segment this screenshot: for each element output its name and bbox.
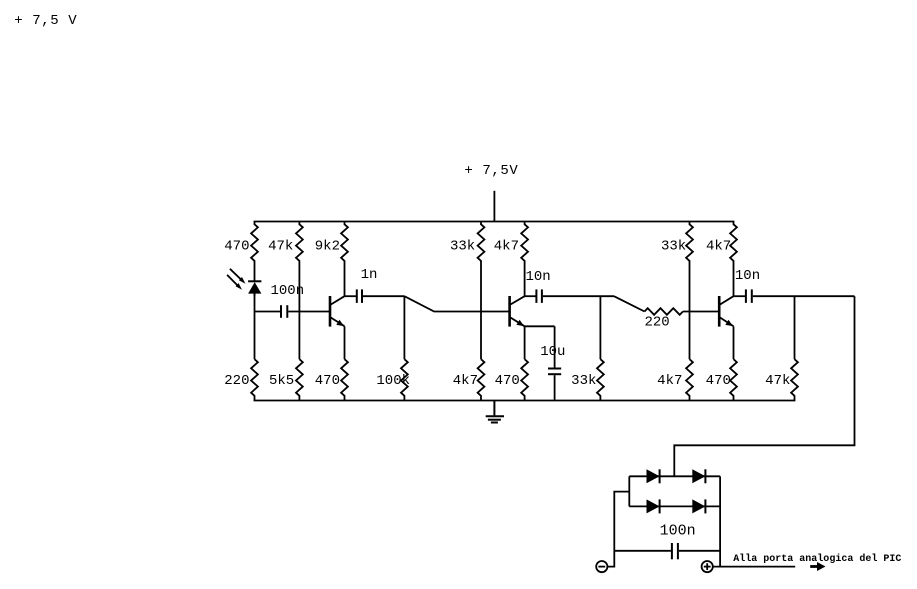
svg-text:4k7: 4k7 xyxy=(494,239,519,255)
wire bridge left jog xyxy=(607,492,629,567)
resistor 47k xyxy=(268,222,303,262)
capacitor 100n (input coupling) xyxy=(271,283,305,318)
wire C1 to Q1 base xyxy=(288,311,330,313)
wire Q1 emitter to R470 xyxy=(344,326,346,359)
resistor 9k2 xyxy=(315,222,348,297)
wire diode row top xyxy=(629,475,720,477)
svg-text:33k: 33k xyxy=(571,373,596,389)
wire Q3 collector node xyxy=(734,295,746,297)
svg-text:470: 470 xyxy=(706,373,731,389)
svg-text:1n: 1n xyxy=(361,267,378,283)
wire 100k column xyxy=(403,296,405,359)
capacitor 10u (emitter bypass) xyxy=(540,326,565,400)
resistor 100k xyxy=(376,359,410,400)
diode D2 (top left) xyxy=(647,469,660,483)
wire 33k column xyxy=(599,296,601,359)
svg-text:9k2: 9k2 xyxy=(315,239,340,255)
svg-text:470: 470 xyxy=(495,373,520,389)
svg-text:10n: 10n xyxy=(526,269,551,285)
svg-text:220: 220 xyxy=(645,314,670,330)
resistor 470 (Q1 emitter) xyxy=(315,359,348,400)
output arrow xyxy=(810,562,825,571)
wire C4 to corner xyxy=(753,295,855,297)
svg-text:33k: 33k xyxy=(450,239,475,255)
photodiode D1 xyxy=(248,281,261,296)
resistor 4k7 (Q3 base lower) xyxy=(657,359,693,400)
resistor 33k (bottom) xyxy=(571,359,604,400)
svg-text:470: 470 xyxy=(224,239,249,255)
wire Q3 emitter to R470 xyxy=(733,326,735,359)
svg-text:100n: 100n xyxy=(660,523,696,540)
wire R220 to Q3 base xyxy=(683,311,719,313)
wire Q2 emitter to R470 xyxy=(524,326,526,359)
wire output drop xyxy=(674,296,854,476)
svg-text:470: 470 xyxy=(315,373,340,389)
terminal plus xyxy=(702,561,713,572)
wire divider column Q3 xyxy=(689,261,691,359)
resistor 220 (bottom left) xyxy=(224,359,258,400)
svg-text:5k5: 5k5 xyxy=(269,373,294,389)
wire slope to Q2 base xyxy=(404,296,509,311)
svg-text:4k7: 4k7 xyxy=(706,239,731,255)
wire photodiode to C1 xyxy=(255,311,281,313)
resistor 4k7 (Q2 base lower) xyxy=(453,359,485,400)
resistor 470 (photodiode series) xyxy=(224,222,258,282)
transistor Q1 xyxy=(330,296,345,327)
wire 47k column xyxy=(794,296,796,359)
svg-text:4k7: 4k7 xyxy=(657,373,682,389)
svg-text:47k: 47k xyxy=(268,239,293,255)
resistor 4k7 (Q3 collector) xyxy=(706,222,737,297)
resistor 33k (Q2 base upper) xyxy=(450,222,484,262)
wire power feed xyxy=(493,191,495,222)
wire diode row bottom xyxy=(629,505,720,507)
resistor 33k (Q3 base upper) xyxy=(661,222,693,262)
wire divider column Q2 xyxy=(480,261,482,359)
diode D5 (bottom right) xyxy=(692,499,705,513)
wire C3 to node 33k xyxy=(543,295,614,297)
svg-text:100k: 100k xyxy=(376,373,410,389)
light arrow 1 xyxy=(230,269,246,284)
svg-text:10u: 10u xyxy=(540,344,565,360)
transistor Q2 xyxy=(510,296,525,327)
wire photodiode cathode to node xyxy=(254,294,256,360)
resistor 470 (Q3 emitter) xyxy=(706,359,737,400)
capacitor 10n (Q2 out) xyxy=(526,269,551,303)
wire slope to R220 xyxy=(614,296,645,311)
diode D4 (bottom left) xyxy=(647,499,660,513)
capacitor 1n xyxy=(357,267,378,303)
svg-text:47k: 47k xyxy=(765,373,790,389)
wire Q2 collector node xyxy=(525,295,536,297)
capacitor 100n (detector) xyxy=(614,523,720,560)
light arrow 2 xyxy=(227,275,242,290)
svg-text:220: 220 xyxy=(224,373,249,389)
capacitor 10n (Q3 out) xyxy=(735,268,760,303)
resistor 4k7 (Q2 collector) xyxy=(494,222,528,297)
svg-text:10n: 10n xyxy=(735,268,760,284)
wire bridge right xyxy=(719,476,721,566)
wire C2 to node 100k xyxy=(363,295,404,297)
svg-text:+ 7,5V: + 7,5V xyxy=(464,163,518,179)
transistor Q3 xyxy=(719,296,733,327)
resistor 47k (output load) xyxy=(765,359,798,400)
svg-text:33k: 33k xyxy=(661,239,686,255)
wire Q1 collector node xyxy=(345,295,357,297)
wire top supply rail xyxy=(254,221,735,223)
svg-text:4k7: 4k7 xyxy=(453,373,478,389)
wire divider column Q1 xyxy=(298,261,300,359)
wire bridge left xyxy=(628,476,630,506)
diode D3 (top right) xyxy=(692,469,705,483)
wire Q2 emitter to C10u xyxy=(525,325,555,327)
svg-text:100n: 100n xyxy=(271,283,305,299)
resistor 470 (Q2 emitter) xyxy=(495,359,528,400)
svg-text:+ 7,5 V: + 7,5 V xyxy=(14,13,77,29)
ground xyxy=(486,401,504,423)
terminal minus xyxy=(596,561,607,572)
resistor 220 (series, horizontal) xyxy=(645,308,683,330)
resistor 5k5 xyxy=(269,359,303,400)
wire output to PIC xyxy=(713,566,795,568)
wire bottom rail xyxy=(254,400,796,402)
